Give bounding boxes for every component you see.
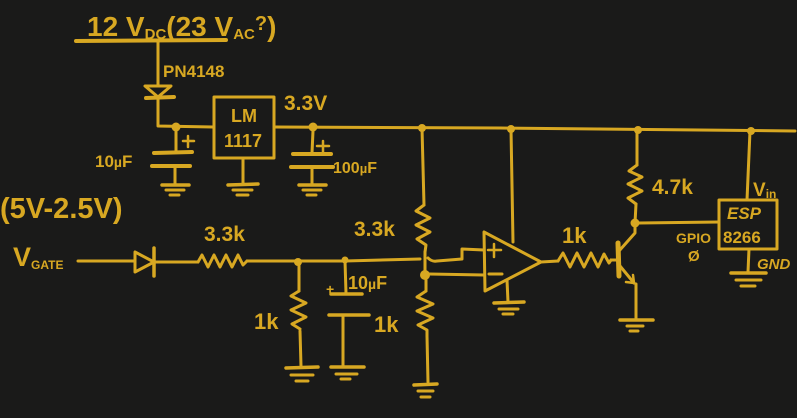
net label 12VDC (23VAC?) [87,11,276,43]
module U3 ESP8266 [719,200,777,249]
wire: collector node to GPIO0 [639,222,719,223]
ground: U1 [228,158,258,195]
wire: D2 to R1 [155,261,198,264]
svg-text:8266: 8266 [723,228,761,247]
diode D2 (pointing right) [135,248,154,276]
capacitor C3 10uF [329,261,369,366]
svg-text:1k: 1k [254,309,279,334]
wire: node to op-amp minus input [429,274,484,275]
ground: R4 [414,384,437,397]
node: rail to R6 [634,126,642,134]
resistor R3 1k vertical [291,263,306,366]
diode D1 (PN4148, cathode down) [145,86,174,98]
svg-text:3.3k: 3.3k [354,218,395,241]
wire: R1 to divider node [247,259,420,261]
node: op-amp input junction [420,252,430,280]
svg-text:1k: 1k [562,223,587,248]
svg-text:+: + [326,281,334,297]
wire: 3.3V rail [274,127,795,131]
ground: C1 [162,185,189,195]
regulator U1 LM1117 [214,97,274,158]
wire: op-amp supply [511,129,513,242]
svg-text:PN4148: PN4148 [163,62,224,81]
node: op-amp supply [507,125,515,133]
svg-text:LM: LM [231,106,257,126]
resistor R1 3.3k horizontal [198,255,247,267]
node: Q1 collector junction [631,219,640,228]
node: rail to ESP Vin [747,127,755,135]
wire: R5 to Q1 base [611,259,618,262]
resistor R6 4.7k vertical [628,131,642,204]
svg-text:3.3V: 3.3V [284,92,327,115]
resistor R5 1k horizontal [558,253,611,267]
label GPIO 0 [676,230,711,265]
svg-text:Ø: Ø [688,248,700,265]
svg-text:3.3k: 3.3k [204,223,245,246]
svg-text:4.7k: 4.7k [652,176,693,199]
svg-text:1117: 1117 [224,131,262,151]
svg-text:GND: GND [757,256,791,273]
wire: VGATE to diode D2 [78,260,135,263]
ground: C3 [331,367,364,379]
svg-text:1k: 1k [374,312,399,337]
svg-text:10µF: 10µF [95,152,132,171]
capacitor C1 10uF [152,131,194,184]
node: LM1117 input junction [172,123,181,132]
ground: C2 [299,185,326,195]
node: rail to R2 [418,124,426,132]
wire: rail to R2 [422,128,424,205]
node: C3 junction [342,257,349,264]
label 10uF C3 with plus [326,273,387,297]
wire: 12V rail to diode D1 [157,41,160,86]
svg-text:100µF: 100µF [333,160,377,177]
svg-text:(5V-2.5V): (5V-2.5V) [0,193,123,225]
svg-text:ESP: ESP [727,204,762,223]
ground: Q1 emitter [620,320,653,331]
wire: op-amp output to R5 [541,261,558,262]
ground: R3 [286,367,318,381]
wire: collector node up to R6 [635,204,636,223]
capacitor C2 100uF [291,131,333,184]
resistor R4 1k vertical [417,280,433,382]
svg-text:10µF: 10µF [348,273,387,293]
resistor R2 3.3k vertical [416,205,430,252]
wire: diode D1 to LM1117 input [158,99,213,127]
ground: op-amp [494,280,524,314]
transistor Q1 [618,224,636,318]
node: C2 junction [309,123,318,132]
wire: node to op-amp plus input (step) [428,249,484,261]
wire: rail to ESP Vin [747,131,750,200]
ground: ESP [731,249,766,286]
op-amp U2 [484,232,541,291]
node: R3 top junction [294,258,302,266]
wire: 12V rail underline [76,40,226,41]
svg-text:GPIO: GPIO [676,230,711,246]
